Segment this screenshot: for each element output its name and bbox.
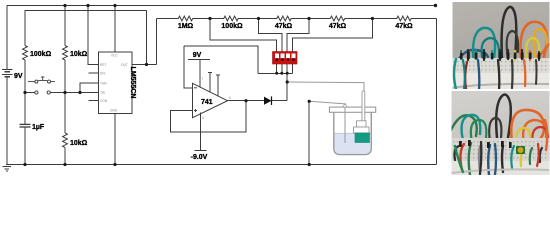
pin number 7 bbox=[202, 77, 204, 81]
svg-text:GND: GND bbox=[110, 109, 118, 113]
svg-text:10kΩ: 10kΩ bbox=[70, 140, 88, 147]
pin dis stub bbox=[88, 72, 98, 74]
wire inverting input drop bbox=[184, 46, 193, 88]
beaker lid bbox=[329, 107, 375, 112]
photo top breadboard bbox=[452, 2, 550, 90]
wire bus riser to feedback bbox=[184, 46, 258, 73]
wire noninverting feedback loop bbox=[170, 101, 246, 132]
label 100k chain bbox=[221, 23, 243, 30]
diode D1 bbox=[264, 96, 272, 105]
node tap1 bbox=[208, 17, 211, 20]
ground bbox=[3, 167, 12, 172]
svg-text:47kΩ: 47kΩ bbox=[329, 23, 347, 30]
pin label RST bbox=[100, 63, 106, 67]
electrode E2 sensor bbox=[354, 91, 370, 143]
label 1M bbox=[178, 23, 194, 30]
label 47k a bbox=[275, 23, 293, 30]
wire vplus supply bbox=[188, 60, 210, 88]
wire threshold bbox=[80, 83, 98, 93]
svg-text:100kΩ: 100kΩ bbox=[221, 23, 243, 30]
wire dip common bus bbox=[258, 64, 293, 73]
resistor R8 47k bbox=[397, 16, 411, 21]
svg-text:OUT: OUT bbox=[121, 63, 128, 67]
wire top rail V+ bbox=[7, 5, 436, 7]
pin label VCC bbox=[111, 54, 118, 58]
label 10k lower bbox=[70, 140, 88, 147]
wire node out drop bbox=[146, 11, 148, 65]
node output bbox=[244, 99, 247, 102]
wire electrode1 lead bbox=[309, 101, 345, 104]
node trigger thr bbox=[78, 91, 81, 94]
label 47k c bbox=[395, 23, 413, 30]
svg-text:1µF: 1µF bbox=[32, 124, 45, 131]
pin label DIS bbox=[100, 72, 105, 76]
resistor R1 100k vertical bbox=[23, 46, 28, 60]
svg-text:4: 4 bbox=[202, 116, 204, 120]
wire electrode1 ground drop bbox=[308, 101, 310, 164]
node out junction bbox=[145, 63, 148, 66]
op-amp plus mark bbox=[194, 109, 197, 112]
label 100k bbox=[30, 51, 52, 58]
photo bottom breadboard bbox=[451, 91, 550, 175]
pin stub nc2 bbox=[216, 75, 220, 96]
pin out stub bbox=[132, 64, 156, 66]
resistor R3 10k lower bbox=[63, 133, 68, 147]
svg-text:47kΩ: 47kΩ bbox=[275, 23, 293, 30]
beaker with solution bbox=[334, 112, 372, 154]
node vcc rail dot c bbox=[113, 4, 116, 7]
svg-text:LM555CN: LM555CN bbox=[129, 67, 136, 99]
svg-text:10kΩ: 10kΩ bbox=[70, 51, 88, 58]
wire resistor chain rail bbox=[157, 18, 437, 20]
svg-text:CON: CON bbox=[100, 99, 108, 103]
label -9.0V bbox=[191, 154, 208, 161]
node tap4 bbox=[371, 17, 374, 20]
svg-text:6: 6 bbox=[229, 96, 231, 100]
node electrode2 tap bbox=[286, 80, 289, 83]
svg-text:VCC: VCC bbox=[111, 54, 118, 58]
wire tap1 bbox=[210, 19, 277, 53]
wire R2 leads bbox=[64, 6, 66, 93]
pin number 6 bbox=[229, 96, 231, 100]
svg-text:TRI: TRI bbox=[100, 91, 105, 95]
wire vminus supply bbox=[195, 113, 207, 151]
pin label TRI bbox=[100, 91, 105, 95]
node electrode1 tap bbox=[308, 100, 311, 103]
wire tap2 bbox=[259, 19, 282, 53]
label LM555CN bbox=[129, 67, 136, 99]
node gnd r3 bbox=[63, 163, 66, 166]
wire 555 out rail bbox=[25, 11, 147, 46]
resistor R2 10k vertical bbox=[63, 46, 68, 60]
label 741 bbox=[201, 99, 213, 106]
svg-text:7: 7 bbox=[202, 77, 204, 81]
pin label CON bbox=[100, 99, 108, 103]
label 10k bbox=[70, 51, 88, 58]
switch S1 pushbutton bbox=[28, 77, 55, 94]
wire opamp output bbox=[228, 100, 265, 102]
wire battery bottom to ground rail bbox=[6, 77, 8, 165]
op-amp minus mark bbox=[194, 87, 197, 89]
node bus2 bbox=[280, 72, 283, 75]
wire ground rail bbox=[6, 164, 437, 166]
wire vcc bbox=[114, 6, 116, 53]
label 9V battery bbox=[14, 73, 23, 80]
resistor R5 100k bbox=[224, 16, 238, 21]
label 1uF bbox=[32, 124, 45, 131]
resistor R7 47k bbox=[330, 16, 344, 21]
node gnd electrode1 bbox=[308, 163, 311, 166]
pin number 4 bbox=[202, 116, 204, 120]
wire tap3 bbox=[287, 19, 309, 53]
svg-text:DIS: DIS bbox=[100, 72, 105, 76]
op-amp U2 741 bbox=[193, 83, 228, 117]
wire 555 gnd bbox=[114, 114, 116, 165]
label 47k b bbox=[329, 23, 347, 30]
wire electrode2 lead bbox=[287, 82, 364, 91]
pin stub nc1 bbox=[208, 73, 212, 92]
node bus3 bbox=[286, 72, 289, 75]
pin label OUT bbox=[121, 63, 128, 67]
svg-text:47kΩ: 47kΩ bbox=[395, 23, 413, 30]
node vcc rail dot b bbox=[86, 4, 89, 7]
node trigger mid bbox=[63, 91, 66, 94]
pin con stub bbox=[89, 100, 99, 102]
resistor R6 47k bbox=[277, 16, 291, 21]
pin label THR bbox=[100, 82, 107, 86]
wire left rail to battery bbox=[6, 6, 8, 70]
svg-text:100kΩ: 100kΩ bbox=[30, 51, 52, 58]
battery B1 bbox=[2, 70, 13, 77]
wire chain right drop bbox=[436, 19, 438, 165]
wire bus to diode node bbox=[286, 73, 288, 100]
wire out up to chain bbox=[156, 19, 158, 65]
wire reset bbox=[88, 6, 98, 65]
svg-text:9V: 9V bbox=[193, 52, 202, 59]
wire diode to bus corner bbox=[272, 100, 288, 102]
node tap2 bbox=[257, 17, 260, 20]
node trigger left bbox=[23, 91, 26, 94]
wire R1 bottom to trigger node bbox=[24, 60, 26, 93]
IC U1 LM555CN body bbox=[98, 52, 132, 114]
electrode E1 bbox=[343, 104, 348, 143]
svg-text:1MΩ: 1MΩ bbox=[178, 23, 194, 30]
capacitor C1 1uF bbox=[20, 93, 31, 165]
svg-text:THR: THR bbox=[100, 82, 107, 86]
label 9V opamp bbox=[193, 52, 202, 59]
wire R3 leads bbox=[64, 93, 66, 165]
node bus1 bbox=[275, 72, 278, 75]
pin label GND bbox=[110, 109, 118, 113]
node tap3 bbox=[307, 17, 310, 20]
svg-text:9V: 9V bbox=[14, 73, 23, 80]
switch DIP S2 bbox=[273, 52, 298, 65]
node terminal dot right bbox=[434, 4, 437, 7]
resistor R4 1M bbox=[178, 16, 192, 21]
svg-text:741: 741 bbox=[201, 99, 213, 106]
node gnd 555 bbox=[113, 163, 116, 166]
wire tap4 bbox=[293, 19, 373, 53]
node vcc rail dot a bbox=[63, 4, 66, 7]
wire trigger line bbox=[25, 92, 98, 94]
node gnd cap bbox=[23, 163, 26, 166]
svg-text:-9.0V: -9.0V bbox=[191, 154, 208, 161]
svg-text:RST: RST bbox=[100, 63, 106, 67]
